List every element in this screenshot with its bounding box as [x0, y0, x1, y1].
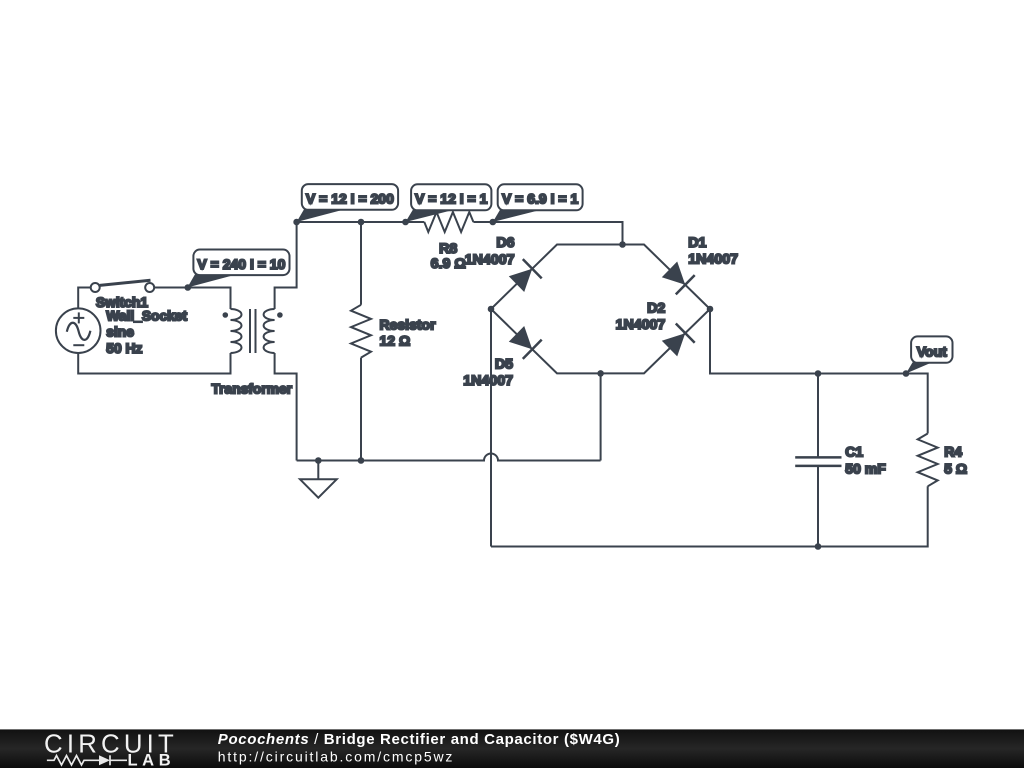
resistor Resistor 12 ohm	[351, 305, 371, 358]
label R8	[439, 241, 457, 257]
node bridge top	[619, 241, 626, 248]
svg-text:D1: D1	[688, 235, 706, 251]
diode D5 1N4007	[509, 326, 542, 359]
resistor R4 5 ohm	[918, 434, 938, 487]
node C1 bottom	[815, 543, 822, 550]
CircuitLab logo LAB	[128, 752, 176, 768]
label R4	[944, 444, 962, 460]
label 6.9 ohm value	[431, 256, 466, 272]
wire secondary top to top rail	[275, 222, 297, 309]
annotation V = 12 I = 200	[297, 184, 398, 222]
svg-text:Resistor: Resistor	[380, 316, 437, 332]
node resistor bottom junction	[358, 457, 365, 464]
svg-text:D6: D6	[496, 235, 514, 251]
label D5	[495, 357, 513, 373]
footer url http://circuitlab.com/cmcp5wz	[218, 748, 454, 764]
node R8 right terminal	[490, 219, 497, 226]
capacitor C1 50 mF	[795, 374, 841, 547]
label D1	[688, 235, 706, 251]
label D2 value 1N4007	[616, 317, 666, 333]
diode D2 1N4007	[662, 324, 695, 357]
label 12 ohm value	[380, 333, 411, 349]
label D2	[647, 301, 665, 317]
svg-text:LAB: LAB	[128, 752, 176, 768]
svg-text:Pocochents / Bridge Rectifier: Pocochents / Bridge Rectifier and Capaci…	[218, 731, 621, 748]
annotation V = 240 I = 10	[187, 250, 289, 288]
label Transformer	[212, 381, 293, 396]
svg-text:1N4007: 1N4007	[465, 252, 515, 268]
wire switch to transformer primary	[154, 288, 230, 310]
wire bridge left to bottom rail	[490, 309, 492, 547]
wire resistor bottom lead	[360, 358, 362, 461]
wire bridge right to output rail	[710, 309, 928, 434]
svg-text:V = 12 I = 200: V = 12 I = 200	[306, 191, 394, 207]
node at V=240 probe	[185, 284, 192, 291]
footer bar	[0, 729, 1024, 768]
svg-text:1N4007: 1N4007	[688, 251, 738, 267]
wire bottom rail	[491, 486, 928, 546]
svg-text:Transformer: Transformer	[212, 381, 293, 396]
resistor R8 6.9 ohm	[424, 212, 473, 232]
transformer core	[250, 309, 256, 353]
svg-text:1N4007: 1N4007	[463, 373, 513, 389]
label D5 value 1N4007	[463, 373, 513, 389]
svg-text:D2: D2	[647, 301, 665, 317]
svg-text:12 Ω: 12 Ω	[380, 333, 411, 349]
wire secondary bottom to ground rail	[275, 353, 297, 461]
svg-text:Vout: Vout	[917, 344, 947, 360]
label R4 value 5 ohm	[944, 461, 967, 477]
svg-text:V = 12 I = 1: V = 12 I = 1	[415, 190, 488, 206]
voltage source V1 Wall_Socket	[56, 308, 101, 353]
bridge octagon wires	[491, 245, 710, 374]
node secondary top	[293, 219, 300, 226]
wire source top to switch	[78, 288, 90, 309]
footer title Pocochents / Bridge Rectifier and Capacitor ($W4G)	[218, 731, 621, 748]
node C1 top	[815, 370, 822, 377]
wire bridge bottom to ground rail	[600, 373, 602, 460]
svg-text:R8: R8	[439, 241, 457, 257]
label sine	[106, 325, 134, 340]
svg-text:6.9 Ω: 6.9 Ω	[431, 256, 466, 272]
wire top rail	[297, 221, 425, 223]
svg-text:V = 6.9 I = 1: V = 6.9 I = 1	[502, 190, 578, 206]
svg-text:R4: R4	[944, 444, 962, 460]
label D6	[496, 235, 514, 251]
diode D1 1N4007	[662, 262, 695, 295]
transformer secondary winding	[264, 309, 275, 353]
node Vout probe	[903, 370, 910, 377]
svg-text:1N4007: 1N4007	[616, 317, 666, 333]
annotation V = 6.9 I = 1	[493, 184, 583, 222]
label Wall_Socket	[106, 308, 187, 323]
svg-text:sine: sine	[106, 325, 134, 340]
diode D6 1N4007	[509, 259, 542, 292]
label C1 value 50 mF	[845, 461, 886, 477]
transformer phase dot secondary	[277, 312, 283, 318]
node bridge left	[488, 306, 495, 313]
wire primary bottom to source bottom	[78, 353, 230, 374]
switch Switch1	[91, 280, 155, 292]
svg-text:50 Hz: 50 Hz	[106, 341, 142, 356]
svg-text:C1: C1	[845, 444, 863, 460]
wire ground rail with hop	[297, 454, 601, 461]
node resistor branch top	[358, 219, 365, 226]
wire R8 to bridge top	[473, 222, 622, 245]
svg-text:V = 240 I = 10: V = 240 I = 10	[197, 256, 285, 272]
label Resistor	[380, 316, 437, 332]
CircuitLab logo mini schematic	[47, 755, 127, 765]
node ground junction	[315, 457, 322, 464]
label D6 value 1N4007	[465, 252, 515, 268]
svg-text:Wall_Socket: Wall_Socket	[106, 308, 187, 323]
svg-text:50 mF: 50 mF	[845, 461, 886, 477]
CircuitLab logo CIRCUIT	[44, 731, 178, 759]
label 50 Hz	[106, 341, 142, 356]
transformer primary winding	[231, 309, 242, 353]
svg-text:D5: D5	[495, 357, 513, 373]
node R8 left terminal	[402, 219, 409, 226]
svg-text:5 Ω: 5 Ω	[944, 461, 967, 477]
wire resistor top lead	[360, 222, 362, 305]
label C1	[845, 444, 863, 460]
label Switch1	[96, 295, 148, 310]
ground symbol	[300, 461, 337, 498]
label D1 value 1N4007	[688, 251, 738, 267]
annotation V = 12 I = 1	[406, 184, 492, 222]
svg-text:http://circuitlab.com/cmcp5wz: http://circuitlab.com/cmcp5wz	[218, 748, 454, 764]
node name flag Vout	[906, 336, 953, 373]
transformer phase dot primary	[223, 312, 229, 318]
node bridge right	[707, 306, 714, 313]
node bridge bottom	[597, 370, 604, 377]
